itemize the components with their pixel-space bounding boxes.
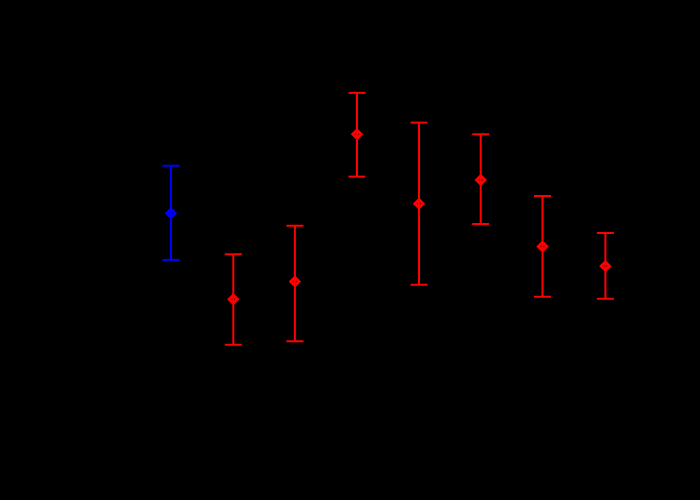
error bar 3 (red, point 3) bbox=[286, 226, 303, 341]
marker 8 (red open diamond) bbox=[601, 262, 609, 270]
marker 3 (red open diamond) bbox=[291, 277, 299, 285]
error bar 1 (blue, point 1) bbox=[163, 166, 180, 260]
error bar 4 (red, point 4) bbox=[349, 93, 366, 177]
marker 6 (red open diamond) bbox=[477, 176, 485, 184]
error bar 8 (red, point 8) bbox=[597, 233, 614, 299]
error bar 6 (red, point 6) bbox=[472, 134, 489, 224]
error bar 7 (red, point 7) bbox=[534, 196, 551, 297]
marker 1 (blue open diamond) bbox=[167, 209, 175, 217]
error bar 5 (red, point 5) bbox=[411, 123, 428, 285]
error bar 2 (red, point 2) bbox=[225, 254, 242, 345]
marker 4 (red open diamond) bbox=[353, 130, 361, 138]
marker 7 (red open diamond) bbox=[538, 242, 546, 250]
marker 2 (red open diamond) bbox=[229, 295, 237, 303]
marker 5 (red open diamond) bbox=[415, 200, 423, 208]
